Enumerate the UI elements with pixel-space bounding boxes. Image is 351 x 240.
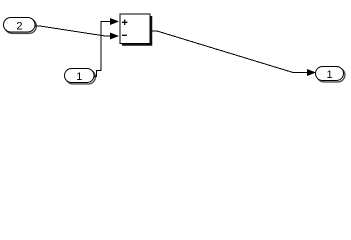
outport block 1 bbox=[316, 67, 345, 82]
sum block minus sign bbox=[122, 34, 127, 36]
svg-text:1: 1 bbox=[327, 69, 333, 81]
wire from inport 1 to sum plus input bbox=[94, 22, 112, 77]
wire from sum output to outport 1 bbox=[151, 31, 307, 73]
inport block 1 bbox=[65, 69, 96, 84]
sum block U1 bbox=[120, 14, 152, 46]
sum block plus sign bbox=[122, 20, 127, 25]
arrowhead into sum minus input bbox=[110, 33, 119, 40]
svg-text:2: 2 bbox=[16, 20, 22, 32]
arrowhead into outport 1 bbox=[307, 69, 316, 76]
wire from inport 2 to sum minus input bbox=[35, 26, 111, 36]
svg-text:1: 1 bbox=[76, 71, 82, 83]
inport block 2 bbox=[4, 18, 37, 34]
arrowhead into sum plus input bbox=[110, 18, 119, 25]
